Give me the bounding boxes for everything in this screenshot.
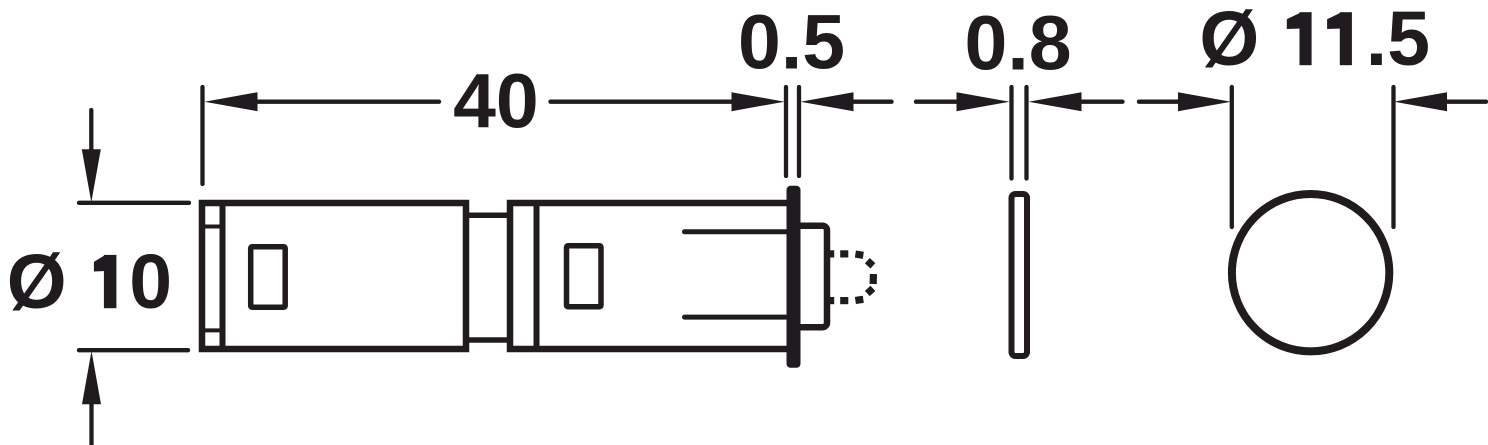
body segment 2 outline: [510, 203, 790, 349]
dim Ø11.5 left arrowhead: [1178, 92, 1231, 111]
dim 0.5 right extension line: [797, 87, 801, 176]
dim Ø10 up arrowhead: [82, 351, 101, 404]
dim 0.5 right arrowhead: [801, 92, 854, 111]
dim 0.8 right arrowhead: [1029, 92, 1082, 111]
dim Ø11.5 right extension line: [1391, 87, 1395, 227]
dim Ø10 bottom gauge line: [79, 348, 188, 352]
svg-text:40: 40: [453, 59, 539, 145]
neck top line: [466, 212, 512, 218]
dim Ø10 up-arrow shaft: [89, 403, 93, 445]
label 11.5 digit 1 second: [1327, 12, 1352, 65]
dim Ø11.5 right arrowhead: [1394, 92, 1447, 111]
dim 40 left extension line: [200, 87, 204, 184]
dim Ø11.5 right shaft: [1445, 100, 1486, 104]
dim 40 left arrowhead: [205, 92, 258, 111]
dim 0.5 left extension line: [784, 87, 788, 176]
dim 0.8 left arrowhead: [957, 92, 1010, 111]
dim Ø10 top gauge line: [79, 201, 189, 205]
neck bottom line: [466, 337, 512, 343]
body segment 2 window: [567, 246, 602, 307]
body segment 1 outline: [202, 203, 466, 349]
dim 0.5 right shaft: [851, 100, 892, 104]
label 11.5 digit 1 first: [1287, 12, 1312, 65]
body segment 1 cap tick bottom: [203, 328, 221, 332]
dim 0.8 right extension line: [1024, 87, 1028, 179]
label 10 digit 1: [94, 255, 117, 308]
dim 40 right arrowhead / dim 0.5 left arrowhead: [732, 92, 785, 111]
svg-text:Ø: Ø: [1199, 0, 1259, 82]
dim 0.8 left shaft: [916, 100, 958, 104]
plunger housing bottom line: [685, 315, 787, 320]
svg-text:Ø: Ø: [7, 239, 67, 325]
dim Ø11.5 left shaft: [1139, 100, 1180, 104]
body segment 1 cap divider: [220, 203, 226, 349]
dim 0.8 right shaft: [1080, 100, 1123, 104]
svg-text:0: 0: [129, 239, 172, 325]
dim Ø10 down arrowhead: [82, 149, 101, 202]
body segment 2 cap divider: [534, 203, 540, 349]
striker plate side view: [1012, 194, 1028, 356]
plunger housing top line: [685, 229, 787, 234]
svg-text:0.5: 0.5: [738, 0, 845, 86]
dashed plunger hidden outline: [829, 254, 873, 301]
dim Ø10 down-arrow shaft: [89, 110, 93, 152]
bushing rounded rect: [795, 226, 827, 328]
striker plate circle front view: [1232, 194, 1389, 351]
body segment 1 cap tick top: [203, 225, 221, 229]
dim 0.8 left extension line: [1009, 87, 1013, 179]
dim 40 right shaft: [551, 100, 735, 104]
svg-text:0.8: 0.8: [965, 1, 1072, 87]
svg-text:.5: .5: [1366, 0, 1430, 82]
flange plate: [787, 186, 801, 368]
dim 40 left shaft: [256, 100, 439, 104]
body segment 1 window: [251, 247, 286, 308]
dim Ø11.5 left extension line: [1230, 87, 1234, 227]
